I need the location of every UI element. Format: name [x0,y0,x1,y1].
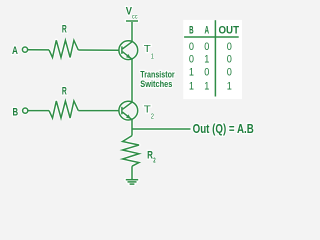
transistor T2 [119,101,138,120]
wire T1 emitter to T2 collector [131,59,133,102]
transistor T1 [119,41,138,60]
svg-text:1: 1 [189,67,194,79]
truth table row 2 (0 1 0) [189,54,232,66]
resistor R2 [123,136,140,167]
svg-text:A: A [205,24,210,36]
svg-text:R: R [147,149,153,161]
wire R2 to ground [131,166,133,179]
svg-text:0: 0 [227,67,232,79]
resistor R (input A) [49,40,78,57]
wire T2 emitter to R2 (through output junction) [131,119,133,135]
truth table divider lines [184,20,239,96]
svg-text:Transistor: Transistor [140,69,175,79]
terminal B [23,108,28,113]
truth table background [183,20,242,99]
truth table row 4 (1 1 1) [189,80,232,92]
resistor R (input B) [49,101,78,118]
svg-text:R: R [62,85,67,97]
wire B terminal to resistor [28,110,49,112]
svg-text:1: 1 [204,80,209,92]
svg-text:cc: cc [132,14,138,21]
svg-text:1: 1 [227,80,232,92]
truth table row 1 (0 0 0) [189,41,232,53]
Vcc rail bar [126,20,138,22]
svg-text:0: 0 [189,54,194,66]
svg-text:B: B [189,24,194,36]
truth table header [189,24,239,36]
caption Transistor Switches [140,69,175,89]
wire output junction to output label [132,128,191,130]
wire resistor to T1 base [78,49,118,51]
svg-text:0: 0 [204,41,209,53]
svg-text:1: 1 [189,80,194,92]
terminal A [22,47,27,52]
Vcc label [126,5,138,20]
svg-text:0: 0 [227,54,232,66]
svg-text:T: T [144,105,151,116]
wire resistor to T2 base [78,110,118,112]
svg-text:Switches: Switches [140,79,172,89]
wire A terminal to resistor [28,49,49,51]
svg-text:1: 1 [204,54,209,66]
svg-text:0: 0 [227,41,232,53]
ground [126,180,138,184]
svg-text:0: 0 [189,41,194,53]
svg-text:Out (Q) = A.B: Out (Q) = A.B [193,122,254,136]
svg-text:R: R [62,24,67,36]
svg-text:1: 1 [151,51,154,60]
svg-text:A: A [12,45,18,57]
svg-text:T: T [144,44,151,55]
label T2 [144,105,154,121]
svg-text:2: 2 [151,111,154,120]
label R2 [147,149,156,164]
truth table row 3 (1 0 0) [189,67,232,79]
svg-text:B: B [13,107,19,119]
svg-text:2: 2 [153,158,155,165]
label T1 [144,44,154,60]
svg-text:0: 0 [204,67,209,79]
wire Vcc to T1 collector [131,22,133,42]
svg-text:OUT: OUT [219,24,240,36]
